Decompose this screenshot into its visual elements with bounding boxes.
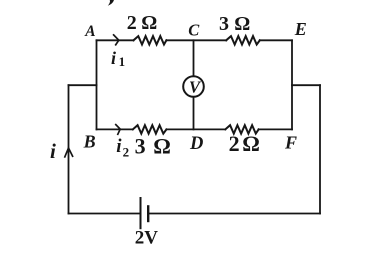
wire battery to bottom right: [148, 213, 320, 215]
voltmeter U1 circle: [183, 76, 204, 97]
arrow i1 on top wire: [114, 35, 119, 45]
svg-text:F: F: [284, 132, 297, 152]
wire E to F vertical: [291, 40, 293, 129]
wire bottom left to battery: [69, 213, 141, 215]
svg-text:i: i: [111, 48, 116, 68]
wire right outer vertical: [319, 85, 321, 213]
arrow i on left wire: [65, 148, 73, 157]
comma fragment top: [108, 0, 114, 6]
wire top A to E: [97, 39, 293, 41]
battery BT1 long plate: [140, 198, 142, 228]
wire A to B vertical: [96, 40, 98, 129]
wire left connector: [69, 84, 97, 86]
resistor R4 2ohm bottom: [225, 125, 258, 133]
svg-text:2V: 2V: [135, 227, 159, 248]
arrow i2 on bottom wire: [116, 125, 120, 135]
wire voltmeter to D: [193, 98, 195, 130]
svg-text:E: E: [294, 19, 307, 39]
wire right connector: [292, 84, 320, 86]
svg-text:D: D: [189, 134, 203, 154]
battery BT1 short plate: [147, 206, 149, 221]
svg-text:Ω: Ω: [141, 12, 157, 34]
resistor R3 3ohm bottom: [133, 125, 167, 133]
svg-text:3: 3: [135, 134, 146, 159]
wire left outer vertical: [68, 85, 70, 213]
svg-text:B: B: [83, 132, 96, 152]
svg-text:Ω: Ω: [234, 13, 250, 35]
svg-text:Ω: Ω: [242, 131, 260, 156]
svg-text:C: C: [188, 20, 200, 39]
svg-text:1: 1: [119, 54, 126, 69]
resistor R1 2ohm top: [134, 36, 167, 44]
svg-text:A: A: [84, 23, 95, 40]
svg-text:2: 2: [229, 131, 240, 156]
svg-text:3: 3: [219, 13, 229, 35]
svg-text:2: 2: [123, 144, 130, 159]
svg-text:Ω: Ω: [153, 134, 171, 159]
svg-text:2: 2: [127, 12, 137, 34]
wire C to voltmeter: [193, 40, 195, 75]
svg-text:i: i: [116, 136, 122, 157]
svg-text:i: i: [50, 139, 56, 163]
resistor R2 3ohm top: [226, 36, 260, 44]
wire bottom B to F: [97, 128, 293, 130]
